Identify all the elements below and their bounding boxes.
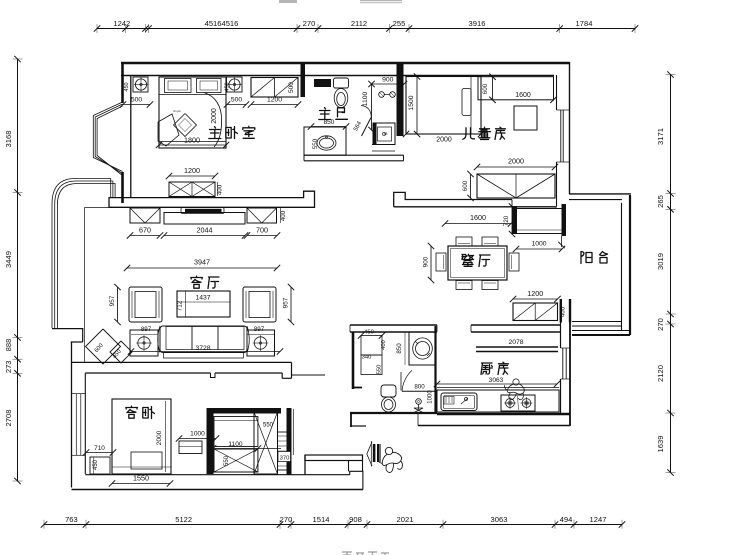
svg-text:850: 850 <box>324 119 335 126</box>
svg-text:3171: 3171 <box>656 128 665 145</box>
svg-text:2708: 2708 <box>4 410 13 427</box>
svg-text:3168: 3168 <box>4 131 13 148</box>
svg-text:2000: 2000 <box>156 430 163 445</box>
svg-text:hm.pm: hm.pm <box>173 109 181 113</box>
svg-text:3063: 3063 <box>491 515 508 524</box>
svg-text:1200: 1200 <box>267 97 282 104</box>
svg-text:1639: 1639 <box>656 436 665 453</box>
svg-text:3019: 3019 <box>656 253 665 270</box>
svg-text:2000: 2000 <box>508 157 524 166</box>
svg-text:1100: 1100 <box>228 441 243 448</box>
svg-text:600: 600 <box>482 83 489 94</box>
svg-text:712: 712 <box>177 300 184 311</box>
svg-text:450: 450 <box>93 459 99 470</box>
svg-text:450: 450 <box>225 82 231 91</box>
svg-text:908: 908 <box>349 515 362 524</box>
svg-text:2000: 2000 <box>211 108 218 124</box>
svg-text:1100: 1100 <box>362 91 369 106</box>
svg-text:1437: 1437 <box>195 295 210 302</box>
svg-text:957: 957 <box>283 297 290 308</box>
svg-text:400: 400 <box>381 340 387 350</box>
svg-text:850: 850 <box>396 343 403 354</box>
svg-text:1242: 1242 <box>113 19 130 28</box>
svg-text:1500: 1500 <box>408 95 415 110</box>
svg-text:600: 600 <box>462 180 469 191</box>
svg-text:1600: 1600 <box>470 213 486 222</box>
svg-text:763: 763 <box>65 515 78 524</box>
svg-text:1000: 1000 <box>428 390 434 404</box>
svg-text:1784: 1784 <box>576 19 593 28</box>
svg-text:270: 270 <box>303 19 316 28</box>
svg-text:550: 550 <box>312 138 319 149</box>
svg-text:1600: 1600 <box>515 92 531 99</box>
svg-text:897: 897 <box>141 326 152 333</box>
svg-text:88: 88 <box>384 132 388 136</box>
svg-text:2044: 2044 <box>197 226 213 235</box>
svg-text:2000: 2000 <box>436 137 452 144</box>
svg-text:400: 400 <box>560 306 567 317</box>
svg-text:450: 450 <box>124 82 130 91</box>
svg-text:1200: 1200 <box>527 289 543 298</box>
svg-text:957: 957 <box>109 295 116 306</box>
svg-text:3449: 3449 <box>4 251 13 268</box>
svg-text:710: 710 <box>94 445 105 452</box>
svg-text:670: 670 <box>139 226 151 235</box>
svg-text:3916: 3916 <box>469 19 486 28</box>
svg-text:3728: 3728 <box>195 345 210 352</box>
svg-text:400: 400 <box>217 184 224 195</box>
svg-text:45164516: 45164516 <box>205 19 239 28</box>
svg-text:255: 255 <box>393 19 406 28</box>
svg-text:340: 340 <box>362 355 372 361</box>
svg-text:1000: 1000 <box>531 241 546 248</box>
svg-text:270: 270 <box>656 318 665 331</box>
svg-text:370: 370 <box>280 456 290 462</box>
svg-text:1550: 1550 <box>133 474 149 483</box>
svg-text:500: 500 <box>231 97 243 104</box>
svg-text:273: 273 <box>4 360 13 373</box>
svg-text:1200: 1200 <box>184 166 200 175</box>
svg-text:400: 400 <box>280 210 287 221</box>
svg-text:720: 720 <box>503 215 510 226</box>
svg-text:900: 900 <box>423 256 430 267</box>
svg-text:494: 494 <box>560 515 573 524</box>
svg-text:2120: 2120 <box>656 365 665 382</box>
svg-text:550: 550 <box>224 455 230 466</box>
svg-text:888: 888 <box>4 339 13 352</box>
svg-text:1514: 1514 <box>313 515 330 524</box>
svg-text:450: 450 <box>364 330 374 336</box>
svg-text:500: 500 <box>131 97 143 104</box>
svg-text:3063: 3063 <box>489 377 504 384</box>
svg-text:2021: 2021 <box>397 515 414 524</box>
svg-text:897: 897 <box>254 326 265 333</box>
svg-text:270: 270 <box>280 515 293 524</box>
svg-text:1247: 1247 <box>590 515 607 524</box>
svg-text:550: 550 <box>377 365 383 375</box>
svg-text:5122: 5122 <box>175 515 192 524</box>
svg-text:2112: 2112 <box>351 19 367 28</box>
svg-text:700: 700 <box>256 226 268 235</box>
svg-text:500: 500 <box>288 82 295 93</box>
svg-text:2078: 2078 <box>508 339 523 346</box>
svg-text:550: 550 <box>263 423 274 429</box>
svg-text:1800: 1800 <box>184 136 200 145</box>
svg-text:800: 800 <box>414 383 425 390</box>
svg-text:900: 900 <box>382 77 394 84</box>
svg-text:265: 265 <box>656 195 665 208</box>
svg-text:3947: 3947 <box>194 258 210 267</box>
svg-text:1000: 1000 <box>190 431 205 438</box>
